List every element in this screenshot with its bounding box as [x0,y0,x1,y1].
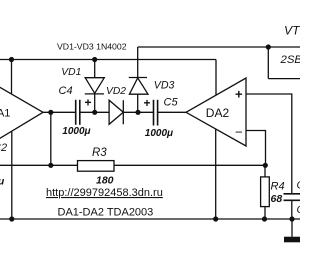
svg-text:DA1: DA1 [0,108,10,120]
wire second rail y=59.5 [0,59,216,61]
wire DA1 output down to feedback rail [50,112,52,165]
node junction feedback left [48,163,53,168]
transistor VT1 box bottom edge [268,78,300,80]
diode VD1 triangle [85,78,104,94]
node junction ground rail C6 [289,216,294,221]
wire C5 to DA2 input apex [158,111,186,113]
svg-text:VD1-VD3 1N4002: VD1-VD3 1N4002 [57,41,127,51]
node junction VD3 anode [135,110,140,115]
op-amp DA2 triangle [186,78,246,146]
node junction ground rail DA2 tap [213,216,218,221]
svg-text:http://299792458.3dn.ru: http://299792458.3dn.ru [46,187,163,199]
ground symbol filled bar [284,237,302,243]
svg-text:68: 68 [271,193,283,205]
svg-text:DA2: DA2 [206,106,230,120]
capacitor C4 left plate [75,100,77,125]
svg-text:C5: C5 [164,97,179,109]
node junction top-left [9,57,14,62]
wire DA2 plus input to right [246,94,292,194]
node junction ground rail R4 [262,216,267,221]
capacitor C5 right plate [157,100,159,126]
wire VD2 to C5 [123,111,153,113]
svg-text:R3: R3 [92,147,107,159]
resistor R4 box [261,177,270,207]
diode VD2 triangle [109,100,123,124]
diode VD1 top lead [94,60,96,78]
node junction feedback right R4 top [263,163,268,168]
wire C4 to VD2 [80,111,109,113]
wire feedback rail y=165 [0,164,265,166]
svg-text:VT1: VT1 [284,24,300,38]
svg-text:VD2: VD2 [106,86,126,97]
svg-text:−: − [235,124,243,139]
svg-text:1μ: 1μ [0,176,5,188]
op-amp DA1 upper edge [0,75,43,113]
capacitor C5 left plate [153,100,155,126]
node junction ground rail left [9,216,14,221]
diode VD1 cathode bar [85,93,104,95]
svg-text:C7: C7 [297,204,301,216]
wire corner from top rail down to VD3 [137,47,139,78]
diode VD3 cathode bar [129,77,147,79]
wire top rail +supply y=47 [138,46,300,48]
svg-text:R4: R4 [271,181,285,193]
wire ground rail y=219 [0,218,300,220]
capacitor C6 top plate [284,193,302,195]
wire C6 bottom lead [291,200,293,219]
svg-text:2SB1: 2SB1 [280,54,301,66]
resistor R4 lead bottom [264,207,266,219]
wire corner second rail down to DA2 top edge [215,60,217,96]
op-amp DA1 lower edge [0,112,43,151]
svg-text:1000μ: 1000μ [145,128,173,139]
wire mid rail DA1 output to C4 [43,111,76,113]
svg-text:DA1-DA2 TDA2003: DA1-DA2 TDA2003 [58,206,154,218]
diode VD1 bottom lead [94,94,96,112]
svg-text:+: + [235,86,243,101]
capacitor C4 right plate [79,100,81,125]
wire DA1 supply tap [11,60,13,95]
diode VD3 triangle [129,78,148,94]
wire DA2 lower tap down to ground rail [215,129,217,219]
diode VD3 bottom lead [137,94,139,112]
wire to ground symbol [291,219,293,237]
svg-text:VD3: VD3 [154,79,175,91]
resistor R3 box [78,161,115,172]
node junction VD1 cathode [92,110,97,115]
diode VD2 cathode bar [122,100,124,124]
svg-text:180: 180 [96,175,114,187]
svg-text:C2: C2 [0,142,7,154]
svg-text:+: + [85,96,92,110]
svg-text:C4: C4 [59,85,73,97]
svg-text:1000μ: 1000μ [62,126,90,137]
svg-text:+: + [144,96,151,110]
svg-text:VD1: VD1 [61,67,81,78]
svg-text:C6: C6 [297,180,301,192]
node junction VD1 anode [92,57,97,62]
wire DA1 inverting tap down to ground rail [11,131,13,219]
transistor VT1 box left edge [267,47,269,79]
node junction VT1 box at top rail [266,44,271,49]
node junction DA1 output [48,110,53,115]
wire DA2 minus input to feedback rail [246,131,266,166]
capacitor C6 bottom plate [284,199,302,201]
resistor R4 lead top [264,165,266,177]
